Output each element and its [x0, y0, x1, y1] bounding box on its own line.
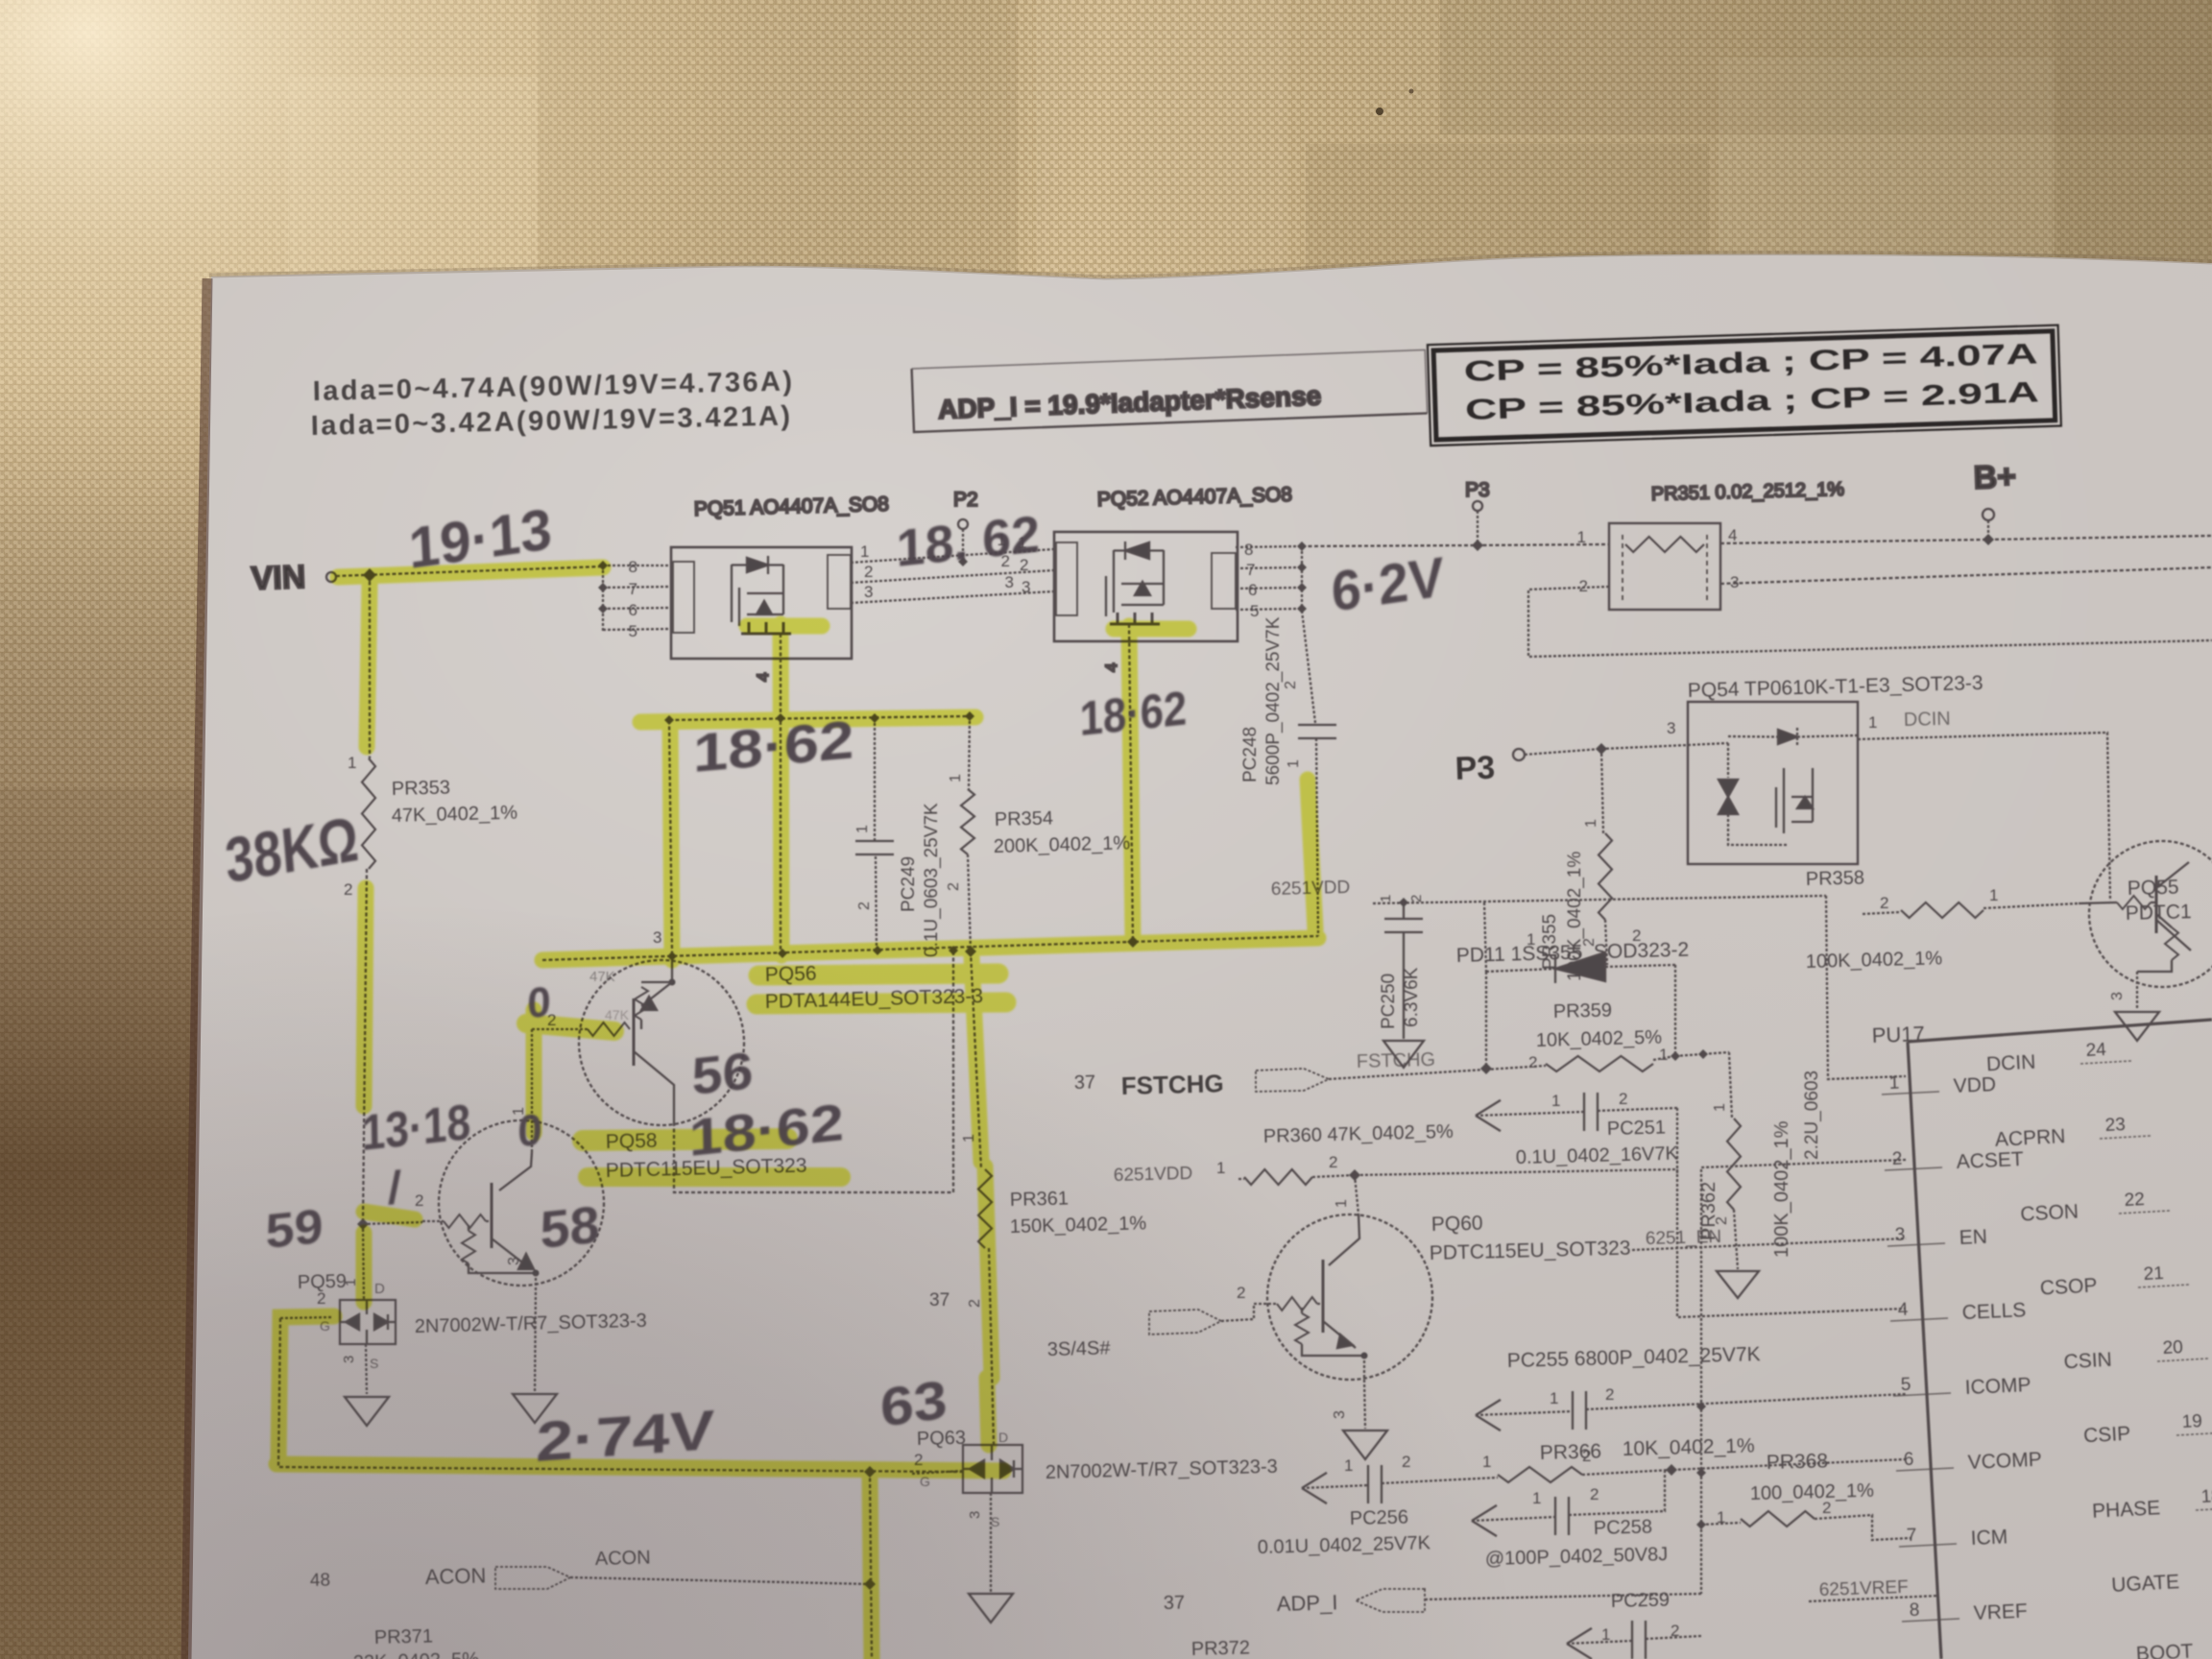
- highlight PQ59 gate loop: [278, 1316, 334, 1461]
- svg-text:S: S: [991, 1514, 999, 1529]
- svg-text:10K_0402_5%: 10K_0402_5%: [1536, 1027, 1663, 1051]
- svg-text:2: 2: [1408, 895, 1425, 902]
- svg-text:24: 24: [2085, 1040, 2107, 1061]
- svg-text:CSOP: CSOP: [2039, 1274, 2098, 1299]
- svg-text:2: 2: [1528, 1053, 1537, 1071]
- transistor PQ56 PDTA144EU_SOT323-3: [579, 960, 744, 1125]
- svg-text:8: 8: [1909, 1600, 1919, 1621]
- highlight node 59 stub: [364, 1212, 415, 1219]
- svg-text:2: 2: [856, 902, 873, 910]
- highlight row A net: [640, 717, 975, 722]
- svg-text:5: 5: [629, 622, 637, 640]
- svg-text:3: 3: [2109, 992, 2126, 1000]
- wire PQ56 base down to PQ58: [531, 1029, 533, 1152]
- svg-text:EN: EN: [1959, 1226, 1987, 1249]
- svg-text:7: 7: [629, 580, 637, 598]
- svg-text:1: 1: [1550, 1389, 1558, 1407]
- svg-text:1: 1: [1583, 819, 1599, 828]
- svg-text:2: 2: [1605, 1385, 1614, 1404]
- svg-text:6251VDD: 6251VDD: [1114, 1164, 1193, 1186]
- svg-text:1: 1: [1868, 713, 1877, 732]
- svg-text:/: /: [388, 1162, 401, 1214]
- wire PQ59 gate loop down to 2.74V row: [278, 1318, 963, 1472]
- highlight row B net: [542, 938, 1318, 960]
- svg-text:3: 3: [1667, 719, 1675, 737]
- mosfet PQ59 2N7002W SOT323-3: [363, 1224, 364, 1300]
- svg-text:5: 5: [1250, 602, 1259, 620]
- svg-text:2: 2: [1880, 894, 1888, 912]
- svg-text:3S/4S#: 3S/4S#: [1047, 1337, 1112, 1360]
- svg-text:1: 1: [1712, 1103, 1728, 1112]
- paper sheet: [188, 254, 2212, 1659]
- svg-text:5600P_0402_25V7K: 5600P_0402_25V7K: [1263, 616, 1284, 785]
- svg-text:PR353: PR353: [392, 777, 451, 800]
- svg-text:PC249: PC249: [899, 856, 919, 912]
- svg-text:21: 21: [2143, 1263, 2164, 1285]
- capacitor PC250: [1403, 902, 1405, 919]
- highlight net 37 vertical: [972, 957, 981, 1162]
- wire junction down to PQ60: [1355, 1175, 1358, 1214]
- svg-text:PR372: PR372: [1191, 1637, 1251, 1659]
- svg-text:1: 1: [1216, 1159, 1225, 1177]
- svg-text:PC250: PC250: [1379, 974, 1399, 1029]
- svg-text:PR355: PR355: [1540, 914, 1560, 970]
- svg-text:P3: P3: [1465, 479, 1490, 501]
- svg-text:1: 1: [1378, 895, 1394, 902]
- svg-text:0.1U_0603_25V7K: 0.1U_0603_25V7K: [922, 803, 942, 957]
- svg-text:1: 1: [348, 754, 356, 772]
- wire PR353 down to node 59: [363, 869, 367, 1224]
- wire P3 to PQ54 pin3: [1601, 745, 1688, 749]
- resistor PR360 47K_0402_5%: [1114, 1121, 1455, 1186]
- svg-text:PHASE: PHASE: [2092, 1497, 2161, 1523]
- highlight PQ58 label swipe: [583, 1139, 787, 1141]
- wire ACSET column: [1701, 1160, 1906, 1594]
- svg-text:47K_0402_1%: 47K_0402_1%: [392, 803, 518, 827]
- resistor PR359 10K_0402_5%: [1528, 999, 1668, 1071]
- svg-text:1: 1: [1482, 1453, 1491, 1471]
- svg-text:47K: 47K: [589, 969, 615, 985]
- svg-text:2: 2: [1619, 1090, 1627, 1108]
- capacitor PC259: [1601, 1589, 1679, 1644]
- wire PQ56 collector loop: [674, 950, 953, 1192]
- svg-text:19: 19: [2181, 1411, 2202, 1432]
- svg-text:ACON: ACON: [595, 1547, 651, 1570]
- ground under PC250: [1383, 1041, 1424, 1068]
- svg-text:FSTCHG: FSTCHG: [1120, 1069, 1224, 1100]
- ground under PQ63: [969, 1594, 1013, 1623]
- svg-text:D: D: [998, 1430, 1008, 1445]
- highlight VIN wire: [338, 567, 603, 577]
- svg-text:PU17: PU17: [1871, 1022, 1925, 1047]
- highlight PR353 to node 59: [364, 888, 366, 1106]
- svg-text:4: 4: [1728, 526, 1737, 544]
- highlight PQ51 pin4: [781, 624, 781, 955]
- resistor PR354 200K_0402_1%: [969, 716, 970, 789]
- svg-text:47K: 47K: [605, 1007, 630, 1022]
- resistor PR371 label: [353, 1625, 480, 1659]
- svg-text:37: 37: [1074, 1071, 1096, 1094]
- wire PQ59 source to ground: [366, 1344, 367, 1394]
- IC PU17: [1871, 1022, 1925, 1047]
- highlight PQ56 base to PQ58: [526, 1010, 542, 1133]
- wire row B: [542, 936, 1318, 960]
- svg-text:VREF: VREF: [1973, 1600, 2028, 1624]
- svg-text:2: 2: [1329, 1153, 1337, 1171]
- svg-text:PR359: PR359: [1553, 999, 1613, 1022]
- resistor PR361 150K_0402_1%: [978, 1169, 992, 1248]
- svg-text:3: 3: [1005, 573, 1014, 591]
- resistor PR368 100_0402_1%: [1717, 1450, 1874, 1527]
- svg-text:18·62: 18·62: [1079, 681, 1187, 746]
- resistor PR358 100K_0402_1%: [1806, 867, 1999, 973]
- wire node59 to PQ58 base: [363, 1222, 422, 1224]
- svg-text:1: 1: [1334, 1199, 1350, 1208]
- highlight PC248 branch: [1308, 780, 1315, 929]
- wire PR351 to B+ and right: [1720, 536, 2212, 543]
- ground under PQ59: [345, 1397, 389, 1426]
- svg-text:CSON: CSON: [2020, 1200, 2080, 1225]
- wire DCIN right: [1858, 733, 2110, 901]
- svg-text:PC251: PC251: [1607, 1117, 1667, 1140]
- svg-text:CELLS: CELLS: [1961, 1299, 2026, 1324]
- svg-text:23: 23: [2104, 1115, 2126, 1136]
- svg-text:63: 63: [878, 1368, 949, 1438]
- svg-text:58: 58: [540, 1195, 600, 1260]
- transistor PQ60 PDTC115EU_SOT323: [1267, 1214, 1432, 1380]
- svg-text:1: 1: [1888, 1073, 1899, 1094]
- wire PQ63 source to ground: [990, 1493, 992, 1592]
- svg-text:PR358: PR358: [1806, 867, 1865, 890]
- resistor PR366 10K_0402_1%: [1482, 1434, 1755, 1471]
- svg-text:2: 2: [1891, 1149, 1902, 1169]
- svg-text:6.3V6K: 6.3V6K: [1402, 967, 1422, 1027]
- formula box ADP_I: [912, 349, 1428, 432]
- capacitor PC251 0.1U_0402_16V7K: [1476, 1100, 1501, 1131]
- svg-text:1: 1: [1344, 1456, 1353, 1475]
- svg-text:100K_0402_1%: 100K_0402_1%: [1565, 852, 1585, 981]
- svg-text:4: 4: [754, 673, 772, 682]
- wire PQ51 pin4 down: [780, 634, 781, 955]
- svg-text:P3: P3: [1455, 750, 1496, 787]
- ground under PQ60: [1343, 1431, 1387, 1459]
- svg-text:2: 2: [967, 1299, 983, 1308]
- svg-text:2: 2: [1632, 926, 1641, 945]
- svg-text:150K_0402_1%: 150K_0402_1%: [1010, 1213, 1147, 1238]
- svg-text:UGATE: UGATE: [2111, 1571, 2180, 1597]
- svg-text:CSIN: CSIN: [2063, 1349, 2112, 1374]
- svg-text:3: 3: [653, 928, 661, 947]
- svg-text:20: 20: [2162, 1337, 2183, 1358]
- svg-text:0: 0: [517, 1104, 542, 1156]
- highlight ACON vertical: [870, 1476, 872, 1659]
- svg-text:1: 1: [1532, 1489, 1541, 1507]
- svg-text:2: 2: [344, 880, 352, 899]
- svg-text:7: 7: [1906, 1526, 1916, 1546]
- svg-text:B+: B+: [1973, 458, 2017, 496]
- highlight gate net 2.74V row: [276, 1464, 1003, 1471]
- svg-text:BOOT: BOOT: [2135, 1640, 2194, 1659]
- svg-text:8: 8: [1244, 541, 1253, 559]
- ground under PQ58: [513, 1394, 557, 1423]
- capacitor PC249 0.1U_0603_25V7K: [875, 718, 877, 950]
- wire main bus P2-P3-PR351: [1302, 544, 1609, 546]
- svg-text:48: 48: [310, 1570, 331, 1591]
- svg-text:4: 4: [1102, 663, 1120, 672]
- capacitor PC248 5600P_0402_25V7K: [1302, 611, 1315, 723]
- capacitor PC255 6800P_0402_25V7K: [1507, 1343, 1761, 1407]
- wire PQ51 to P2 rows: [851, 549, 1054, 603]
- svg-text:2: 2: [1402, 1453, 1410, 1471]
- svg-text:22: 22: [2124, 1190, 2145, 1211]
- svg-text:1: 1: [1527, 930, 1535, 949]
- wire PD11 up to 6251VDD: [1484, 902, 1486, 972]
- formula box CP: [1428, 325, 2061, 446]
- resistor PR362 100K_0402_1%: [1729, 1052, 1732, 1118]
- svg-text:100K_0402_1%: 100K_0402_1%: [1806, 948, 1943, 973]
- svg-text:CSIP: CSIP: [2083, 1423, 2131, 1448]
- svg-text:3: 3: [1332, 1410, 1348, 1419]
- highlighter traces: [276, 567, 1318, 1659]
- svg-text:1: 1: [948, 774, 964, 782]
- svg-text:1: 1: [860, 542, 869, 561]
- svg-text:PC258: PC258: [1594, 1516, 1653, 1539]
- svg-text:PC256: PC256: [1350, 1506, 1409, 1529]
- svg-text:ICOMP: ICOMP: [1964, 1374, 2032, 1399]
- ground under PR362: [1717, 1271, 1759, 1298]
- svg-text:VCOMP: VCOMP: [1967, 1449, 2042, 1474]
- resistor PR355 100K_0402_1%: [1601, 749, 1603, 833]
- svg-text:1: 1: [854, 825, 871, 833]
- svg-text:P2: P2: [953, 489, 978, 511]
- svg-text:100_0402_1%: 100_0402_1%: [1750, 1480, 1875, 1504]
- svg-text:D: D: [374, 1281, 385, 1297]
- svg-text:PR371: PR371: [374, 1625, 434, 1648]
- svg-text:DCIN: DCIN: [1904, 709, 1951, 731]
- svg-text:1: 1: [1989, 886, 1998, 904]
- svg-text:1: 1: [1577, 528, 1586, 546]
- svg-text:PR361: PR361: [1010, 1188, 1070, 1211]
- svg-text:FSTCHG: FSTCHG: [1357, 1049, 1436, 1072]
- svg-text:0: 0: [527, 978, 551, 1027]
- svg-text:1: 1: [1659, 1046, 1668, 1064]
- svg-text:2: 2: [1590, 1485, 1599, 1503]
- svg-text:2: 2: [415, 1191, 423, 1210]
- net flag ACON: [310, 1547, 651, 1591]
- highlight PQ56 label swipe: [758, 974, 998, 975]
- wire PQ51 left pin bus: [603, 565, 671, 631]
- svg-text:2·74V: 2·74V: [536, 1399, 715, 1474]
- handwritten annotations: [223, 496, 1446, 1474]
- svg-text:6: 6: [629, 601, 637, 619]
- svg-text:7: 7: [1246, 561, 1255, 579]
- highlight wire to PQ59 drain: [356, 1233, 373, 1302]
- wire row A left drop to PQ56: [669, 720, 672, 952]
- svg-text:2.2U_0603: 2.2U_0603: [1802, 1070, 1822, 1160]
- mosfet PQ54 TP0610K-T1-E3_SOT23-3: [1667, 672, 1984, 737]
- svg-text:100K_0402_1%: 100K_0402_1%: [1771, 1120, 1792, 1258]
- svg-text:PR366: PR366: [1540, 1440, 1602, 1464]
- wire VIN to PQ51: [336, 566, 603, 576]
- highlight PQ52 pin4: [1129, 626, 1133, 939]
- svg-text:S: S: [370, 1356, 378, 1371]
- svg-text:37: 37: [929, 1290, 950, 1310]
- resistor PR372 label: [1191, 1637, 1251, 1659]
- svg-text:VIN: VIN: [251, 559, 306, 597]
- svg-text:5: 5: [1900, 1375, 1911, 1395]
- svg-text:2: 2: [1579, 577, 1588, 595]
- svg-text:59: 59: [265, 1199, 324, 1259]
- net 6251VDD wire: [1271, 878, 1351, 900]
- svg-text:ACPRN: ACPRN: [1994, 1125, 2066, 1151]
- svg-text:6: 6: [1903, 1450, 1913, 1470]
- capacitor PC256 0.01U_0402_25V7K: [1302, 1473, 1327, 1503]
- svg-text:PR368: PR368: [1767, 1450, 1829, 1474]
- svg-text:DCIN: DCIN: [1985, 1051, 2035, 1076]
- svg-text:8: 8: [629, 558, 637, 576]
- net 6251_EN wire: [1646, 1227, 1722, 1249]
- svg-text:2: 2: [1283, 681, 1299, 689]
- svg-text:VDD: VDD: [1953, 1073, 1996, 1097]
- transistor PQ58 PDTC115EU_SOT323: [439, 1120, 604, 1286]
- svg-text:ACSET: ACSET: [1956, 1148, 2024, 1173]
- svg-text:3: 3: [1022, 578, 1030, 596]
- wire VDD down to PU17 pin1: [1826, 896, 1906, 1079]
- svg-text:3: 3: [864, 583, 873, 601]
- wire VIN down to PR353: [369, 575, 371, 758]
- diode PD11 1SS355_SOD323-2: [1456, 926, 1690, 967]
- terminal P3: [1455, 750, 1496, 787]
- svg-text:PQ60: PQ60: [1431, 1213, 1483, 1236]
- capacitor PC258 @100P_0402_50V8J: [1472, 1505, 1497, 1536]
- svg-text:3: 3: [967, 1511, 983, 1519]
- resistor PR353 47K_0402_1%: [362, 758, 375, 869]
- svg-text:PR354: PR354: [995, 807, 1054, 830]
- highlight VIN to PR353: [367, 584, 370, 747]
- net flag 3S/4S#: [1047, 1337, 1112, 1360]
- svg-text:2: 2: [1237, 1284, 1245, 1302]
- highlight PQ63 drain: [987, 1378, 989, 1445]
- svg-text:0.1U_0402_16V7K: 0.1U_0402_16V7K: [1516, 1143, 1679, 1168]
- net flag FSTCHG: [1074, 1049, 1436, 1100]
- svg-text:ACON: ACON: [424, 1563, 486, 1589]
- wire PQ52 right pin bus: [1236, 546, 1302, 611]
- svg-text:4: 4: [1897, 1300, 1909, 1320]
- ground under PQ55: [2115, 1012, 2159, 1041]
- svg-text:3: 3: [1894, 1225, 1905, 1245]
- svg-text:3: 3: [341, 1356, 357, 1363]
- svg-text:6: 6: [1248, 581, 1257, 599]
- svg-text:2: 2: [946, 882, 962, 891]
- svg-text:2: 2: [317, 1289, 325, 1308]
- svg-text:56: 56: [691, 1042, 754, 1106]
- wire CELLS pin4: [1677, 1169, 1906, 1317]
- wire ACON net vertical: [870, 1472, 872, 1659]
- highlight row A drop to PQ56: [670, 722, 672, 960]
- net 6251VREF: [1818, 1577, 1909, 1600]
- svg-text:2: 2: [864, 563, 873, 581]
- net flag ADP_I: [1164, 1590, 1338, 1616]
- svg-text:1: 1: [1551, 1092, 1560, 1110]
- wire kelvin loop PR351: [1528, 587, 2212, 657]
- svg-text:13·18: 13·18: [361, 1094, 470, 1162]
- svg-text:18: 18: [2200, 1486, 2212, 1507]
- transistor PQ55: [2089, 841, 2212, 987]
- svg-text:ADP_I: ADP_I: [1276, 1590, 1337, 1616]
- wire net 37 vertical to PQ63: [971, 951, 994, 1445]
- svg-text:PC248: PC248: [1240, 727, 1261, 782]
- svg-text:1: 1: [1286, 759, 1302, 768]
- svg-text:37: 37: [1164, 1592, 1186, 1614]
- svg-text:PC259: PC259: [1611, 1589, 1671, 1612]
- wire row A (PQ51 drain net): [669, 716, 970, 720]
- wire PQ52 pin4 down: [1129, 624, 1133, 942]
- svg-text:200K_0402_1%: 200K_0402_1%: [994, 832, 1131, 857]
- svg-text:ICM: ICM: [1970, 1526, 2008, 1550]
- svg-text:10K_0402_1%: 10K_0402_1%: [1623, 1434, 1755, 1460]
- mosfet PQ63 2N7002W SOT323-3: [914, 1428, 1278, 1529]
- svg-text:2: 2: [1822, 1499, 1831, 1517]
